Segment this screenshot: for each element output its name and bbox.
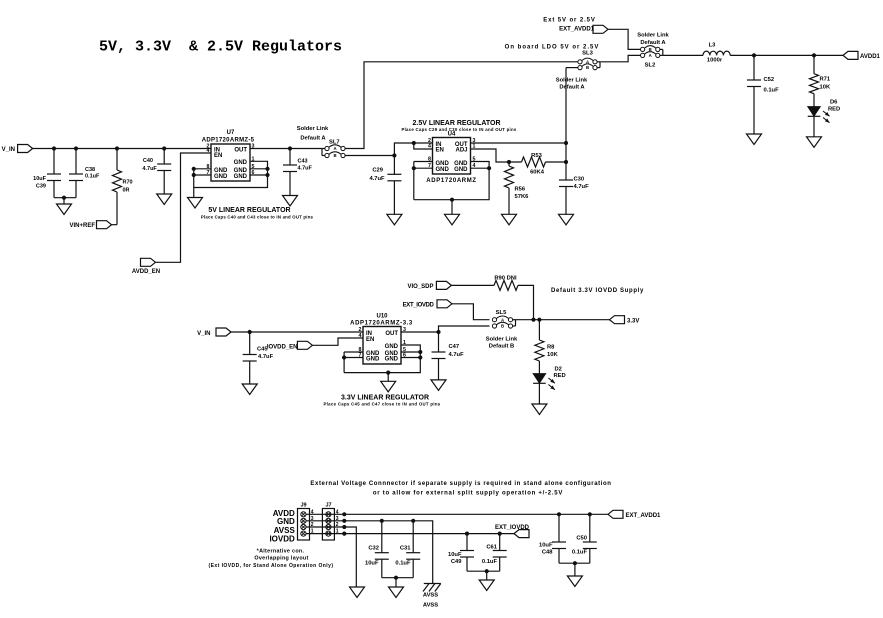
svg-text:RED: RED [828,107,840,113]
wire U10 left GND bracket [344,352,363,373]
wire U7 bottom gnd rail [194,161,268,187]
svg-text:0R: 0R [123,188,130,194]
svg-text:VIO_SDP: VIO_SDP [407,284,433,290]
svg-text:ADJ: ADJ [455,148,467,154]
junction C39 tap [52,146,56,150]
svg-text:R53: R53 [531,153,542,159]
svg-text:EN: EN [436,148,444,154]
svg-text:2: 2 [359,327,362,333]
wire U4 OUT net [471,142,567,144]
junction R90 tee [531,318,535,322]
svg-text:or to allow for external split: or to allow for external split supply op… [373,491,563,497]
svg-text:(Ext IOVDD, for Stand Alone Op: (Ext IOVDD, for Stand Alone Operation On… [208,563,333,569]
wire U10 out to SL5-B [439,326,490,332]
svg-text:IOVDD: IOVDD [269,535,295,544]
svg-text:10uF: 10uF [448,552,462,558]
svg-text:57K6: 57K6 [515,194,530,200]
ground (C29) [387,214,402,225]
AVSS chassis ground (row3) [423,584,441,609]
wire C32/C31 gnd rail [382,577,413,579]
wire EXT_AVDD1 to SL2-B [608,29,641,49]
svg-text:60K4: 60K4 [530,170,545,176]
svg-text:GND: GND [454,167,468,173]
junction C32/C31 stem [394,576,398,580]
svg-text:D6: D6 [830,100,838,106]
junction U4 gnd4 [487,166,491,170]
svg-text:C50: C50 [576,536,587,542]
wire SL2 to L3 [663,54,703,56]
junction U7 gnd5 [265,167,269,171]
svg-text:Solder Link: Solder Link [637,33,669,39]
svg-text:Solder Link: Solder Link [556,78,588,84]
svg-text:10K: 10K [820,85,831,91]
ground (row2 AVSS) [350,587,365,598]
wire U4 bottom gnd rail [414,162,489,200]
svg-text:EXT_IOVDD: EXT_IOVDD [495,525,530,531]
svg-text:Default A: Default A [559,85,585,91]
svg-text:EN: EN [366,337,374,343]
svg-text:GND: GND [454,161,468,167]
text 5V LINEAR REGULATOR [201,207,314,219]
svg-text:Ext 5V or 2.5V: Ext 5V or 2.5V [543,17,596,23]
text 2.5V LINEAR REGULATOR [401,120,516,132]
svg-text:Default B: Default B [489,344,514,350]
wire row1 IOVDD net [306,533,514,535]
wire IOVDD_EN to U10 EN [312,338,363,345]
junction U10 gnd5 [418,350,422,354]
junction C61 tap [498,532,502,536]
ground (D2) [532,404,547,415]
ground (U10) [381,381,396,392]
wire R90 to 3.3V rail [518,285,534,319]
svg-text:1000r: 1000r [707,58,723,64]
text alternative connector note [208,549,333,569]
svg-text:4.7uF: 4.7uF [574,184,590,190]
junction U4 gnd rail stem [450,198,454,202]
resistor R70 0R [113,149,133,225]
svg-text:C47: C47 [449,344,460,350]
svg-text:AVSS: AVSS [423,603,438,609]
ground (U4) [445,214,460,225]
connector J7 [322,503,338,541]
svg-text:GND: GND [214,168,228,174]
wire 2.5V output vertical [565,68,567,162]
svg-text:GND: GND [436,161,450,167]
ground (R56) [502,214,517,225]
junction C49/C61 stem [485,569,489,573]
LED D2 RED [533,367,566,405]
ground (D6) [807,137,822,148]
connector AVDD_EN [132,258,160,275]
capacitor C50 0.1uF [572,514,597,563]
svg-text:U10: U10 [376,314,388,320]
solder link SL5 [486,310,518,350]
junction R56 tap [507,160,511,164]
junction C49 tap [465,532,469,536]
svg-text:5V, 3.3V & 2.5V Regulators: 5V, 3.3V & 2.5V Regulators [99,39,342,56]
svg-text:10uF: 10uF [365,561,379,567]
svg-text:GND: GND [234,174,248,180]
svg-text:J9: J9 [300,503,306,509]
svg-text:C39: C39 [36,184,46,190]
svg-text:*Alternative con.: *Alternative con. [257,549,305,555]
svg-text:Solder Link: Solder Link [486,337,518,343]
junction C45 tap [248,330,252,334]
svg-text:4: 4 [359,333,362,339]
wire U4 ADJ to divider [471,149,522,162]
svg-text:Place Caps C45 and C47 close t: Place Caps C45 and C47 close to IN and O… [323,401,440,406]
wire U7 OUT to SL7 [250,148,322,150]
wire L3 to AVDD1 [730,54,843,56]
svg-text:D2: D2 [555,367,562,373]
connector EXT_AVDD1 (bottom) [608,510,661,519]
svg-text:R56: R56 [515,187,526,193]
svg-text:SL2: SL2 [645,63,656,69]
junction C48 tap [557,512,561,516]
connector EXT_AVDD1 (top) [543,17,608,33]
svg-text:0.1uF: 0.1uF [482,559,498,565]
solder link SL3 [556,51,600,91]
svg-text:GND: GND [214,174,228,180]
wire row3 GND net [306,521,433,584]
svg-text:AVDD_EN: AVDD_EN [132,269,160,275]
svg-text:AVSS: AVSS [274,526,296,535]
connector VIN+REF [69,221,117,229]
svg-text:4.7uF: 4.7uF [369,176,385,182]
connector V_IN (3.3V section input) [197,328,231,337]
capacitor C31 0.1uF [395,521,420,578]
wire C48/C50 gnd rail [559,562,590,564]
junction U7 gnd7 [192,173,196,177]
resistor R53 60K4 [522,153,567,176]
svg-text:SL5: SL5 [496,310,507,316]
wire U10 right gnd stubs [401,352,420,358]
junction C47/SL5 tee [436,330,440,334]
junction C43 tap [288,146,292,150]
svg-text:GND: GND [234,168,248,174]
svg-text:4: 4 [428,144,431,150]
svg-text:C32: C32 [368,546,379,552]
connector EXT_IOVDD (bottom) [495,525,530,538]
svg-text:ADP1720ARMZ-5: ADP1720ARMZ-5 [202,138,255,144]
wire U7 left GND bracket [194,169,211,198]
svg-text:Place Caps C29 and C30 close t: Place Caps C29 and C30 close to IN and O… [401,127,516,132]
connector IOVDD_EN [267,341,313,350]
junction U4 EN branch [412,141,416,145]
svg-text:SL3: SL3 [582,51,593,57]
svg-text:Place Caps C40 and C43 close t: Place Caps C40 and C43 close to IN and O… [201,214,314,219]
svg-text:0.1uF: 0.1uF [85,174,100,180]
svg-text:L3: L3 [709,43,717,49]
junction row2 J7 [342,525,346,529]
svg-text:2.5V LINEAR REGULATOR: 2.5V LINEAR REGULATOR [412,120,500,127]
junction C50 tap [588,512,592,516]
capacitor C52 0.1uF [747,55,779,134]
capacitor C39 10uF [33,149,61,198]
wire SL3 common to SL2-A [600,55,640,61]
capacitor C43 4.7uF [283,149,313,196]
junction U10 gnd stem [386,371,390,375]
svg-text:B: B [586,65,589,70]
junction OUT tee [564,141,568,145]
svg-text:A: A [586,59,589,64]
svg-text:Overlapping layout: Overlapping layout [254,556,308,562]
capacitor C49 10uF [448,534,474,572]
svg-text:V_IN: V_IN [2,147,15,153]
wire row2 AVSS net [306,527,356,587]
junction C52 tap [752,53,756,57]
connector VIO_SDP [407,281,451,290]
svg-text:U4: U4 [448,132,456,138]
svg-text:EXT_AVDD1: EXT_AVDD1 [559,27,595,33]
junction row3 J7 [342,519,346,523]
capacitor C61 0.1uF [482,534,507,572]
svg-text:10uF: 10uF [33,176,46,182]
svg-text:C30: C30 [574,177,585,183]
ground (C43) [283,196,298,207]
connector V_IN (5V section input) [2,145,33,154]
resistor R90 DNI [494,276,518,291]
junction U7 gnd6 [265,173,269,177]
svg-text:SL7: SL7 [329,140,340,146]
wire EXT_IOVDD to SL5-A [452,304,490,320]
ground (C52) [747,134,762,145]
ground (C32/C31) [389,587,404,598]
svg-text:A: A [333,146,336,151]
svg-text:5V LINEAR REGULATOR: 5V LINEAR REGULATOR [208,207,290,214]
wire U7 right gnd stubs [250,169,268,175]
svg-text:RED: RED [554,373,566,379]
wire U4 left GND bracket [414,162,433,200]
junction R8 tap [537,318,541,322]
junction C31 tap [411,519,415,523]
wire VIO_SDP to R90 [451,284,494,286]
svg-text:OUT: OUT [234,147,247,153]
svg-text:U7: U7 [227,130,235,136]
inductor L3 1000r [703,43,730,64]
connector EXT_IOVDD (3.3V section) [403,300,452,309]
svg-text:R70: R70 [123,180,133,186]
LED D6 RED [808,100,841,137]
wire U10 OUT [401,331,439,333]
svg-text:V_IN: V_IN [197,331,210,337]
junction ground stem [62,196,66,200]
junction U10 gnd6 [418,355,422,359]
connector J9 [298,503,314,541]
capacitor C29 4.7uF [369,156,401,215]
svg-text:C38: C38 [85,167,95,173]
junction row1 J7 [342,532,346,536]
junction R53/C30 tee [564,160,568,164]
svg-text:4.7uF: 4.7uF [258,354,274,360]
svg-text:Default 3.3V IOVDD Supply: Default 3.3V IOVDD Supply [551,288,644,294]
wire row4 AVDD net [306,513,608,515]
junction R71 tap [812,53,816,57]
regulator U7 ADP1720ARMZ-5 [202,130,255,181]
capacitor C30 4.7uF [559,162,589,214]
svg-text:C49: C49 [451,559,462,565]
junction U4 gnd7 [412,166,416,170]
capacitor C40 4.7uF [142,149,171,195]
svg-text:OUT: OUT [385,331,398,337]
resistor R56 57K6 [505,162,530,214]
svg-text:R90 DNI: R90 DNI [494,276,517,282]
svg-text:ADP1720ARMZ: ADP1720ARMZ [426,178,477,184]
svg-text:C29: C29 [372,167,383,173]
svg-text:4: 4 [207,148,210,154]
ground (C39/C38) [57,204,72,215]
svg-text:0.1uF: 0.1uF [395,561,411,567]
svg-text:4.7uF: 4.7uF [449,352,465,358]
svg-text:R71: R71 [820,77,831,83]
svg-text:GND: GND [385,356,399,362]
svg-text:Default A: Default A [640,40,666,46]
svg-text:C52: C52 [764,77,775,83]
regulator U10 ADP1720ARMZ-3.3 [350,314,413,365]
junction R70 tap [115,146,119,150]
svg-text:GND: GND [366,356,380,362]
wire U10 bottom gnd rail [344,345,420,373]
ground (C40) [157,194,172,205]
capacitor C38 0.1uF [69,149,100,198]
connector AVDD1 [843,51,881,60]
svg-text:AVSS: AVSS [423,593,438,599]
svg-text:4.7uF: 4.7uF [298,166,313,172]
svg-text:EXT_IOVDD: EXT_IOVDD [403,303,435,309]
ground (U7) [188,198,203,209]
junction C32 tap [380,519,384,523]
svg-text:AVDD1: AVDD1 [860,54,881,60]
svg-text:3.3V: 3.3V [627,318,639,324]
connector 3.3V [610,316,640,325]
wire 2.5V input to U4 IN/EN [394,143,432,156]
svg-text:GND: GND [436,167,450,173]
junction C40 tap [162,146,166,150]
wire V_IN input rail [33,148,211,150]
wire 3.3V input rail [231,331,363,333]
wire SL3-B to 2.5V output vertical [566,67,578,69]
ground (C47) [431,380,446,391]
svg-text:A: A [501,317,504,322]
capacitor C47 4.7uF [432,332,465,380]
text 3.3V LINEAR REGULATOR [323,395,440,407]
svg-text:GND: GND [385,344,399,350]
svg-text:On board LDO 5V or 2.5V: On board LDO 5V or 2.5V [505,45,600,51]
junction row4 J7 [342,512,346,516]
wire SL7-B to 2.5V input [345,155,394,157]
wire C39/C38 ground join [54,197,76,199]
svg-text:Solder Link: Solder Link [297,126,329,132]
svg-text:0.1uF: 0.1uF [572,550,588,556]
svg-text:C31: C31 [400,546,411,552]
ground (C49/C61) [479,580,494,591]
svg-text:GND: GND [234,160,248,166]
svg-text:VIN+REF: VIN+REF [69,223,95,229]
junction C38 tap [74,146,78,150]
solder link SL2 [637,33,669,69]
svg-text:10K: 10K [547,352,558,358]
junction C29 tap [392,153,396,157]
ground (C45) [242,384,257,395]
text pin labels AVDD GND AVSS IOVDD [269,509,295,544]
resistor R8 10K [535,320,559,374]
svg-text:4.7uF: 4.7uF [142,166,157,172]
junction C48/C50 stem [573,561,577,565]
wire SL5 common to 3.3V connector [516,319,610,321]
wire U4 right gnd stub [471,167,490,169]
junction U10 gnd7 [342,355,346,359]
svg-text:B: B [649,47,652,52]
svg-text:External Voltage Connnector if: External Voltage Connnector if separate … [310,481,611,487]
wire C49/C61 gnd rail [467,570,500,572]
ground (C30) [559,214,574,225]
svg-text:C61: C61 [486,545,497,551]
resistor R71 10K [810,55,831,106]
wire SL7-A up to top distribution rail [345,62,578,149]
svg-text:J7: J7 [325,503,331,509]
capacitor C48 10uF [539,514,566,563]
svg-text:IOVDD_EN: IOVDD_EN [267,345,298,351]
svg-text:R8: R8 [547,345,555,351]
ground (C48/C50) [567,576,582,587]
capacitor C45 4.7uF [243,332,274,384]
svg-text:A: A [649,53,652,58]
svg-text:Default A: Default A [300,136,326,142]
svg-text:EXT_AVDD1: EXT_AVDD1 [626,513,662,519]
svg-text:B: B [333,153,336,158]
text external voltage connector note [310,481,611,497]
svg-text:ADP1720ARMZ-3.3: ADP1720ARMZ-3.3 [350,321,413,327]
regulator U4 ADP1720ARMZ [426,132,477,185]
svg-text:0.1uF: 0.1uF [764,88,780,94]
svg-text:C48: C48 [542,550,553,556]
svg-text:EN: EN [214,153,222,159]
capacitor C32 10uF [365,521,389,578]
solder link SL7 [297,126,345,158]
wire AVDD_EN to U7 EN pin [156,153,212,262]
svg-text:B: B [501,324,504,329]
junction U7 gnd8 [192,167,196,171]
svg-text:10uF: 10uF [539,543,553,549]
svg-text:C43: C43 [298,159,308,165]
svg-text:C40: C40 [143,158,153,164]
